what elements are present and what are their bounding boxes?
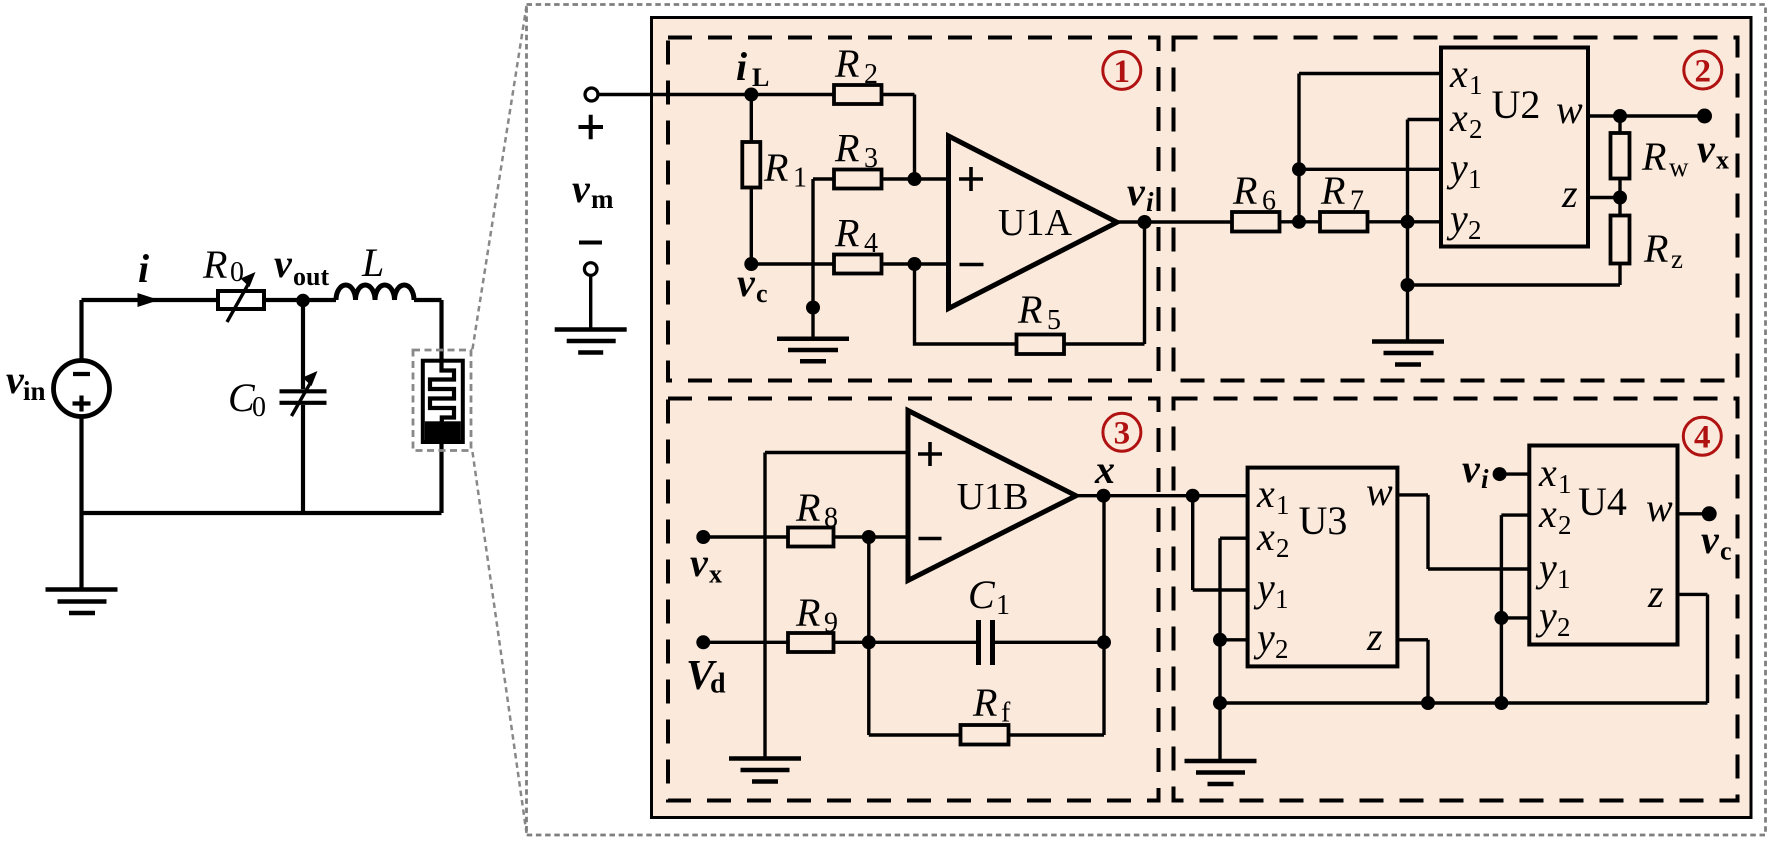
resistor R0 (variable) <box>218 272 264 322</box>
node w junction <box>1613 109 1627 123</box>
current arrow i <box>138 293 160 307</box>
node x <box>1097 489 1111 503</box>
svg-text:U4: U4 <box>1578 479 1627 524</box>
minus sign U1A <box>960 263 984 267</box>
terminal v_i in <box>1493 467 1507 481</box>
bottom rail <box>82 511 442 515</box>
node v_i <box>1138 215 1152 229</box>
resistor R8 <box>788 528 834 547</box>
svg-text:x: x <box>1449 95 1468 140</box>
wire R5 to v_i <box>1064 222 1145 344</box>
wire V_d to R9 <box>703 641 788 644</box>
svg-text:2: 2 <box>1469 114 1483 144</box>
wire minus node down to Rf <box>867 537 870 735</box>
svg-text:x: x <box>709 560 722 589</box>
wire Rf right to x branch <box>1009 496 1105 735</box>
svg-text:v: v <box>1701 517 1720 562</box>
wire y1 <box>1299 168 1441 171</box>
wire op-amp output to U3 <box>1076 494 1248 497</box>
svg-text:R: R <box>834 211 859 256</box>
wire source bottom <box>79 417 83 513</box>
wire R8 to minus node <box>834 535 909 538</box>
svg-text:z: z <box>1647 571 1664 616</box>
svg-text:x: x <box>1716 146 1729 175</box>
svg-text:w: w <box>1669 152 1689 182</box>
svg-text:1: 1 <box>1275 584 1289 614</box>
svg-text:v: v <box>737 260 756 305</box>
svg-text:x: x <box>1256 514 1275 559</box>
wire R1 bottom to v_c <box>750 188 753 265</box>
svg-text:v: v <box>690 540 709 585</box>
node ground bus left <box>1213 696 1227 710</box>
resistor R4 <box>834 255 882 274</box>
svg-text:0: 0 <box>252 392 266 423</box>
node R9 C1 junction <box>862 635 876 649</box>
svg-text:x: x <box>1256 471 1275 516</box>
wire inductor to memristor branch <box>414 300 442 361</box>
svg-text:6: 6 <box>1262 186 1276 217</box>
svg-text:1: 1 <box>1557 564 1571 594</box>
svg-text:2: 2 <box>1275 634 1289 664</box>
wire R3 left to ground rail <box>813 177 834 180</box>
svg-text:w: w <box>1646 485 1673 530</box>
capacitor C1 plates <box>979 620 993 665</box>
svg-text:f: f <box>1001 698 1011 729</box>
arrow of variable capacitor C0 <box>292 371 318 416</box>
wire top rail left <box>82 298 219 302</box>
svg-text:d: d <box>710 669 726 700</box>
wire R0 to v_out <box>264 298 303 302</box>
svg-text:1: 1 <box>1276 490 1290 520</box>
zoom connector line top <box>473 6 527 349</box>
svg-text:1: 1 <box>793 163 807 194</box>
svg-text:i: i <box>1146 187 1154 217</box>
wire x2 to ground rail <box>1408 120 1442 286</box>
wire Rf left <box>869 733 961 736</box>
svg-text:in: in <box>23 376 46 406</box>
ground left <box>46 590 118 614</box>
node v_c <box>744 257 758 271</box>
svg-text:out: out <box>293 262 329 291</box>
node v_out <box>296 294 310 308</box>
svg-text:z: z <box>1366 614 1383 659</box>
node z junction <box>1613 191 1627 205</box>
svg-text:m: m <box>591 184 614 214</box>
dashed sub-box 4 <box>1174 399 1738 801</box>
voltage source v_in <box>54 361 110 417</box>
svg-text:w: w <box>1556 87 1583 132</box>
wire z return rail <box>1408 264 1621 286</box>
inductor L <box>336 285 414 300</box>
node minus input U1B <box>862 530 876 544</box>
wire x2 U4 to bus <box>1501 515 1529 703</box>
wire R2 to plus node <box>882 95 915 180</box>
node y2 junction <box>1401 215 1415 229</box>
svg-text:8: 8 <box>824 503 838 534</box>
wire R6 to R7 <box>1280 220 1321 223</box>
memristor <box>423 361 463 442</box>
svg-text:R: R <box>1641 134 1666 179</box>
plus sign U1B <box>918 442 942 466</box>
wire R7 to U2 y2 <box>1368 220 1442 223</box>
terminal V_d <box>696 635 710 649</box>
capacitor C0 plates <box>280 391 327 403</box>
svg-text:w: w <box>1366 469 1393 514</box>
svg-text:5: 5 <box>1047 305 1061 336</box>
node x2 y2 U3 junction <box>1213 633 1227 647</box>
wire v_i to x1 U4 <box>1500 472 1530 475</box>
wire memristor bottom <box>439 442 443 513</box>
capacitor C0 wires <box>301 300 305 513</box>
dashed sub-box 2 <box>1174 38 1738 381</box>
svg-text:2: 2 <box>1276 533 1290 563</box>
svg-text:v: v <box>1462 446 1481 491</box>
svg-text:R: R <box>972 680 997 725</box>
svg-text:y: y <box>1535 545 1557 590</box>
svg-text:z: z <box>1561 171 1578 216</box>
svg-text:L: L <box>361 240 384 285</box>
wire z U4 to bus <box>1678 594 1708 703</box>
wire R4 to minus node <box>882 262 949 265</box>
svg-text:R: R <box>763 145 788 190</box>
node C1 right junction <box>1097 635 1111 649</box>
multiplier U2 <box>1441 48 1588 247</box>
svg-text:2: 2 <box>864 59 878 90</box>
circled number 2 <box>1684 51 1722 89</box>
node y1 junction <box>1292 162 1306 176</box>
wire v_c to R4 <box>751 262 834 265</box>
wire z pin <box>1588 196 1620 199</box>
ground bus <box>1220 701 1708 704</box>
svg-text:U1A: U1A <box>998 202 1072 244</box>
svg-text:y: y <box>1446 145 1468 190</box>
svg-text:C: C <box>968 572 996 617</box>
ground block3 <box>729 759 801 782</box>
svg-text:R: R <box>834 41 859 86</box>
resistor Rf <box>961 725 1009 745</box>
wire source top to top rail <box>79 300 83 360</box>
svg-text:1: 1 <box>1468 164 1482 194</box>
wire w U4 to v_c <box>1678 512 1710 515</box>
svg-text:y: y <box>1253 615 1275 660</box>
svg-text:9: 9 <box>824 608 838 639</box>
wire Rw to z node <box>1618 179 1621 198</box>
dashed sub-box 1 <box>668 38 1159 381</box>
terminal v_c out <box>1702 506 1717 521</box>
wire junction up to x1 <box>1297 74 1300 222</box>
wire plus input to ground <box>765 453 908 759</box>
multiplier U4 <box>1529 446 1677 645</box>
svg-text:3: 3 <box>864 143 878 174</box>
svg-text:2: 2 <box>1695 54 1712 90</box>
wire w to Rw <box>1618 116 1621 133</box>
svg-text:2: 2 <box>1558 510 1572 540</box>
node R6 R7 junction <box>1292 215 1306 229</box>
svg-text:3: 3 <box>1114 416 1131 452</box>
svg-text:L: L <box>752 63 769 92</box>
svg-text:1: 1 <box>1469 70 1483 100</box>
terminal v_x in <box>696 530 710 544</box>
svg-text:v: v <box>572 166 591 211</box>
dashed sub-box 3 <box>668 399 1159 801</box>
svg-text:x: x <box>1538 450 1557 495</box>
svg-text:U1B: U1B <box>957 476 1029 518</box>
multiplier U3 <box>1248 468 1398 667</box>
svg-text:1: 1 <box>1558 469 1572 499</box>
plus sign in source <box>73 396 91 412</box>
svg-text:2: 2 <box>1468 215 1482 245</box>
resistor Rz <box>1611 216 1630 264</box>
op-amp U1B <box>908 411 1076 581</box>
wire z node to Rz <box>1618 198 1621 216</box>
ground stem left <box>79 513 83 589</box>
svg-text:y: y <box>1446 196 1468 241</box>
minus sign in source <box>73 372 90 376</box>
svg-text:R: R <box>202 242 227 287</box>
svg-text:i: i <box>736 44 747 89</box>
node U4 bus junction <box>1494 696 1508 710</box>
ground block2 <box>1372 342 1444 365</box>
wire op-amp output to R6 <box>1117 220 1232 223</box>
svg-text:R: R <box>795 485 820 530</box>
resistor Rw <box>1611 133 1630 179</box>
svg-text:x: x <box>1449 51 1468 96</box>
svg-text:1: 1 <box>996 590 1010 621</box>
wire x2 U3 to ground rail <box>1220 538 1248 703</box>
svg-text:y: y <box>1253 565 1275 610</box>
ground v_m <box>555 330 627 353</box>
wire R3 right to op-amp <box>882 177 949 180</box>
zoom connector line bottom <box>473 452 527 833</box>
node z return junction <box>1401 278 1415 292</box>
svg-text:i: i <box>138 246 149 291</box>
svg-text:U3: U3 <box>1299 498 1348 543</box>
node i_L <box>744 88 758 102</box>
svg-text:v: v <box>1127 169 1146 214</box>
svg-text:R: R <box>1643 226 1668 271</box>
resistor R3 <box>834 170 882 189</box>
resistor R6 <box>1232 212 1280 232</box>
node plus input <box>908 172 922 186</box>
wire v_out to inductor <box>303 298 336 302</box>
wire w U3 to y1 U4 <box>1397 495 1529 569</box>
wire x1 <box>1299 72 1441 75</box>
svg-text:y: y <box>1535 593 1557 638</box>
svg-text:7: 7 <box>1350 186 1364 217</box>
node ground junction <box>806 301 820 315</box>
circled number 1 <box>1103 51 1141 89</box>
svg-text:v: v <box>274 241 293 286</box>
feedback wire to R5 <box>915 264 1017 344</box>
svg-text:x: x <box>1538 491 1557 536</box>
analog board solid box <box>652 18 1752 818</box>
ground block4 <box>1185 761 1257 784</box>
terminal circle above ground <box>584 263 597 276</box>
svg-text:x: x <box>1094 447 1115 492</box>
ground stem U2 <box>1406 285 1409 341</box>
svg-text:i: i <box>1481 464 1489 494</box>
wire R9 to C1 <box>834 641 978 644</box>
svg-text:R: R <box>1232 168 1257 213</box>
svg-text:4: 4 <box>1694 420 1711 456</box>
svg-text:U2: U2 <box>1492 82 1541 127</box>
outer dotted frame <box>527 5 1766 836</box>
ground stem U3 <box>1218 703 1221 761</box>
svg-text:R: R <box>1320 168 1345 213</box>
memristor zoom dashed box <box>413 350 471 451</box>
wire x node down to y1 U3 <box>1193 496 1248 590</box>
resistor R1 <box>742 142 760 188</box>
circled number 3 <box>1103 413 1141 451</box>
resistor R5 <box>1017 335 1065 355</box>
svg-text:1: 1 <box>1114 54 1131 90</box>
resistor R7 <box>1320 212 1368 232</box>
wire i_L to R2 <box>751 93 834 96</box>
wire R1 top <box>750 95 753 143</box>
terminal v_x out <box>1697 109 1712 124</box>
svg-text:R: R <box>795 590 820 635</box>
wire y2 U3 <box>1220 638 1248 641</box>
input terminal v_m <box>585 88 598 101</box>
vertical wire R3 to ground <box>811 179 814 339</box>
resistor R2 <box>834 85 882 104</box>
svg-text:z: z <box>1671 244 1683 274</box>
wire w output <box>1588 114 1705 117</box>
resistor R9 <box>788 633 834 652</box>
svg-text:R: R <box>1017 287 1042 332</box>
plus sign v_m <box>579 115 604 140</box>
node minus input <box>908 257 922 271</box>
node x2 y2 U4 junction <box>1494 611 1508 625</box>
wire input to i_L <box>598 93 751 96</box>
wire z U3 to bus <box>1397 640 1428 703</box>
wire v_x to R8 <box>703 535 788 538</box>
ground block1 <box>777 339 849 362</box>
minus sign U1B <box>919 537 942 541</box>
wire C1 to x branch <box>995 641 1104 644</box>
node x1 U3 junction <box>1186 489 1200 503</box>
svg-text:v: v <box>1697 126 1716 171</box>
op-amp U1A <box>949 136 1118 309</box>
ground stem v_m <box>589 275 592 329</box>
svg-text:4: 4 <box>864 228 878 259</box>
svg-text:2: 2 <box>1557 612 1571 642</box>
svg-text:c: c <box>756 279 768 308</box>
svg-text:R: R <box>834 126 859 171</box>
node z U3 bus junction <box>1421 696 1435 710</box>
plus sign U1A <box>959 167 983 191</box>
minus sign v_m <box>579 241 602 245</box>
circled number 4 <box>1683 417 1721 455</box>
svg-text:0: 0 <box>230 257 244 288</box>
wire y2 U4 <box>1501 616 1529 619</box>
svg-text:c: c <box>1720 537 1732 566</box>
